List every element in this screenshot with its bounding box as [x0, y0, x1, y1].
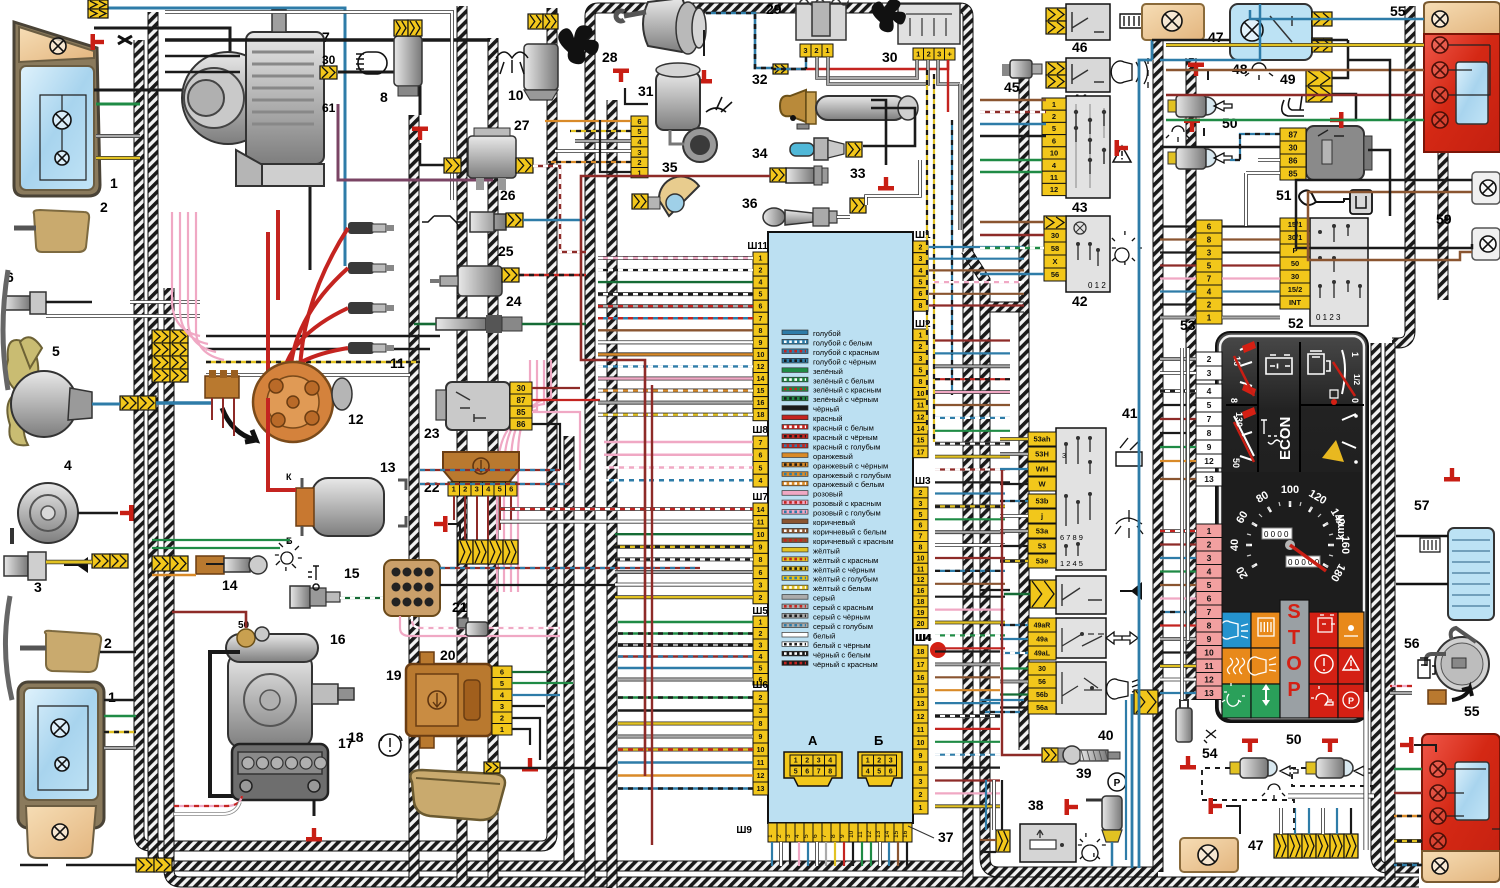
- svg-text:3: 3: [817, 758, 821, 765]
- sensor 34: [786, 168, 814, 183]
- tail lamp 55 bottom: [1422, 734, 1500, 882]
- wires 59: [1296, 180, 1472, 248]
- wire 34 red long: [581, 176, 770, 776]
- svg-text:3: 3: [803, 46, 807, 55]
- svg-text:11: 11: [757, 760, 765, 767]
- wire harness diagonal into room wall: [966, 250, 985, 300]
- svg-text:10: 10: [757, 532, 765, 539]
- icon rays 50: [1166, 126, 1189, 142]
- wires from marker connector: [206, 336, 440, 349]
- svg-text:0: 0: [1350, 398, 1360, 403]
- svg-text:жёлтый с голубым: жёлтый с голубым: [813, 575, 878, 584]
- icon defrost 57: [1420, 538, 1440, 552]
- wire harness x462: [457, 6, 468, 882]
- svg-text:белый: белый: [813, 631, 835, 640]
- wires 49: [1312, 40, 1348, 78]
- electric fan 5 motor: [11, 371, 77, 437]
- tail lamp 55 lamps: [1432, 11, 1448, 27]
- light switch part: [1056, 662, 1106, 714]
- svg-text:30: 30: [1289, 143, 1298, 152]
- white pipe lamps50: [1288, 793, 1374, 798]
- svg-text:34: 34: [752, 145, 768, 161]
- svg-text:8: 8: [830, 834, 837, 838]
- svg-text:10: 10: [508, 87, 524, 103]
- wire harness branch y305: [985, 302, 1024, 313]
- wires 21: [440, 567, 700, 569]
- svg-text:14: 14: [222, 577, 238, 593]
- headlamp 1 bottom-left frame: [18, 682, 104, 828]
- svg-text:2: 2: [919, 490, 923, 497]
- alternator output wire black: [165, 38, 490, 42]
- svg-text:j: j: [1040, 512, 1043, 521]
- chevron 29: [773, 64, 788, 74]
- svg-text:6: 6: [812, 834, 819, 838]
- pin column left of 52: [1196, 220, 1222, 233]
- svg-text:22: 22: [424, 479, 440, 495]
- svg-text:5: 5: [1207, 580, 1212, 590]
- alternator 7: [182, 10, 324, 186]
- oil sensor 26: [470, 212, 506, 232]
- tail 55 bottom window: [1455, 762, 1489, 820]
- wires into column 52 from left: [1160, 225, 1196, 227]
- column switch 41 wiper section: [1056, 428, 1106, 570]
- wires 29-30 gray: [817, 57, 917, 78]
- wires to 41 pins: [1000, 437, 1028, 441]
- svg-text:2: 2: [805, 758, 809, 765]
- sensor 40: [1042, 748, 1058, 762]
- wiper blue wire to 29: [706, 13, 773, 68]
- wires between harnesses right top: [980, 99, 1046, 102]
- svg-text:53a: 53a: [1036, 527, 1049, 536]
- svg-text:красный: красный: [813, 414, 842, 423]
- vacuum unit near 12: [332, 378, 352, 410]
- svg-text:16: 16: [757, 400, 765, 407]
- headlamp bottom lamps: [51, 719, 69, 737]
- ground top-left: [118, 36, 132, 44]
- cluster speedometer: [1222, 472, 1362, 612]
- ground 22: [434, 516, 448, 532]
- svg-text:5: 5: [759, 665, 763, 672]
- fuel sender 56: [1435, 637, 1489, 691]
- switch 36: [763, 208, 785, 226]
- svg-text:2: 2: [1207, 300, 1212, 309]
- sensor 14: [196, 556, 224, 574]
- white verticals left of cluster: [1180, 348, 1184, 700]
- wires to 55 top: [1166, 43, 1424, 47]
- svg-text:2: 2: [463, 485, 467, 494]
- svg-text:15: 15: [757, 388, 765, 395]
- svg-text:INT: INT: [1289, 298, 1302, 307]
- svg-text:7: 7: [759, 316, 763, 323]
- svg-text:6: 6: [805, 769, 809, 776]
- icon headlight 8: [356, 52, 387, 74]
- svg-text:47: 47: [1208, 29, 1224, 45]
- svg-text:5: 5: [919, 512, 923, 519]
- svg-text:51: 51: [1276, 187, 1292, 203]
- fan icon 30: [871, 0, 905, 32]
- svg-text:10: 10: [757, 352, 765, 359]
- icon foglamp 44: [1111, 58, 1148, 88]
- chevron connector right of 41: [1134, 690, 1158, 714]
- wires below Sh9: [771, 842, 773, 866]
- svg-text:9: 9: [759, 734, 763, 741]
- svg-text:49: 49: [1280, 71, 1296, 87]
- park brake switch 39: [1108, 773, 1126, 791]
- side marker 2 bottom: [45, 631, 101, 672]
- wires 19: [512, 671, 550, 673]
- svg-text:9: 9: [759, 545, 763, 552]
- svg-text:5: 5: [1207, 261, 1212, 270]
- svg-text:15: 15: [917, 438, 925, 445]
- svg-text:4: 4: [828, 758, 832, 765]
- svg-text:5: 5: [498, 485, 502, 494]
- washer pump 10: [524, 44, 558, 90]
- svg-text:53ah: 53ah: [1033, 435, 1051, 444]
- warning icons: [1220, 621, 1248, 639]
- svg-text:5: 5: [794, 769, 798, 776]
- wiper ground: [703, 30, 705, 56]
- svg-text:49aR: 49aR: [1034, 623, 1051, 630]
- svg-text:14: 14: [757, 376, 765, 383]
- svg-text:6: 6: [759, 453, 763, 460]
- svg-text:O: O: [1286, 653, 1302, 675]
- wires sensor6: [46, 301, 92, 304]
- svg-text:54: 54: [1202, 745, 1218, 761]
- svg-text:86: 86: [1289, 156, 1298, 165]
- wire harness left v1 to bottom run 1 to x552: [139, 8, 552, 846]
- svg-text:27: 27: [514, 117, 530, 133]
- svg-text:12: 12: [1050, 185, 1058, 194]
- svg-text:8: 8: [1229, 398, 1239, 403]
- fan connector: [120, 396, 138, 410]
- svg-text:А: А: [808, 733, 818, 748]
- headlamp 1 bottom turn section: [26, 806, 96, 858]
- svg-text:7: 7: [817, 769, 821, 776]
- wiper motor 28: [643, 0, 688, 52]
- wire 26 blue: [523, 219, 586, 222]
- svg-text:25: 25: [498, 243, 514, 259]
- svg-text:1: 1: [767, 834, 774, 838]
- block 21: [384, 560, 440, 616]
- svg-text:8: 8: [828, 769, 832, 776]
- svg-text:6: 6: [1052, 136, 1056, 145]
- block 37 wire legend: [782, 330, 808, 335]
- svg-text:5: 5: [919, 367, 923, 374]
- svg-text:15: 15: [917, 688, 925, 695]
- svg-text:20: 20: [917, 621, 925, 628]
- svg-text:3: 3: [785, 834, 792, 838]
- svg-text:55: 55: [1390, 3, 1406, 19]
- svg-text:30: 30: [1291, 272, 1299, 281]
- svg-text:35: 35: [662, 159, 678, 175]
- svg-text:1: 1: [919, 332, 923, 339]
- svg-text:6: 6: [1207, 593, 1212, 603]
- svg-text:17: 17: [917, 662, 925, 669]
- wire harness x1443 top: [1438, 6, 1449, 300]
- svg-text:33: 33: [850, 165, 866, 181]
- svg-text:52: 52: [1288, 315, 1304, 331]
- wires Sh4 right: [935, 650, 1000, 652]
- svg-text:Ш7: Ш7: [752, 492, 768, 503]
- wire 24 green: [414, 323, 586, 326]
- svg-text:6: 6: [1207, 222, 1212, 231]
- svg-text:12: 12: [1204, 456, 1214, 466]
- svg-text:39: 39: [1076, 765, 1092, 781]
- svg-text:Ш1: Ш1: [915, 230, 931, 241]
- wires to 55 bottom: [1394, 768, 1422, 771]
- red wires vertical from coil: [266, 232, 270, 396]
- heated window 57: [1448, 528, 1494, 620]
- odometers: [1262, 528, 1292, 539]
- svg-text:42: 42: [1072, 293, 1088, 309]
- icon washer 41: [1115, 510, 1143, 538]
- hazard switch 43: [1066, 96, 1110, 198]
- svg-text:11: 11: [1050, 173, 1058, 182]
- icon turn arrows: [1106, 632, 1138, 644]
- svg-text:56: 56: [1038, 679, 1046, 686]
- connector stack near marker: [152, 330, 170, 343]
- svg-text:10: 10: [757, 747, 765, 754]
- wire 36 white: [837, 215, 850, 219]
- svg-text:1: 1: [919, 805, 923, 812]
- svg-text:8: 8: [1207, 620, 1212, 630]
- sensor 45: [1002, 64, 1010, 76]
- license lamps 59: [1472, 172, 1500, 204]
- svg-text:11: 11: [1205, 661, 1214, 671]
- svg-text:10: 10: [848, 830, 855, 838]
- icon hazard 43: [1113, 146, 1131, 162]
- cluster fuel pump icon: [1308, 351, 1330, 374]
- svg-text:31: 31: [638, 83, 654, 99]
- svg-text:87: 87: [517, 396, 526, 405]
- svg-text:28: 28: [602, 49, 618, 65]
- svg-text:3: 3: [759, 708, 763, 715]
- svg-text:50: 50: [1286, 731, 1302, 747]
- svg-text:87: 87: [1289, 130, 1298, 139]
- svg-text:13: 13: [875, 830, 882, 838]
- wires lower right of 37: [980, 589, 1010, 591]
- icon light 42: [1112, 231, 1142, 265]
- wires from left harness to 23: [420, 470, 570, 484]
- dash connector block 37 body: [768, 232, 913, 823]
- icon 54: [1204, 730, 1216, 743]
- svg-text:53e: 53e: [1036, 557, 1049, 566]
- svg-text:2: 2: [104, 635, 112, 651]
- svg-text:4: 4: [1207, 287, 1212, 296]
- svg-text:2: 2: [919, 344, 923, 351]
- wires pins column mid: [545, 120, 631, 122]
- icon horn 41: [1116, 582, 1142, 600]
- svg-text:30: 30: [1051, 231, 1059, 240]
- svg-text:10: 10: [1050, 149, 1058, 158]
- wires 52 to column: [1222, 225, 1280, 227]
- svg-text:3: 3: [919, 356, 923, 363]
- svg-text:7: 7: [1207, 414, 1212, 424]
- tail 55 bottom lamps: [1430, 761, 1446, 777]
- relay 46: [1066, 4, 1110, 40]
- svg-text:1: 1: [1207, 526, 1212, 536]
- blue vertical pair bottom: [1131, 694, 1134, 868]
- instrument cluster 53 body: [1216, 332, 1368, 722]
- svg-text:5: 5: [52, 343, 60, 359]
- svg-text:4: 4: [794, 834, 801, 838]
- svg-text:2: 2: [637, 158, 641, 167]
- svg-text:2: 2: [919, 244, 923, 251]
- wires Sh7 left: [500, 507, 753, 511]
- ignition relay 27: [468, 136, 516, 178]
- svg-text:12: 12: [917, 714, 925, 721]
- svg-text:59: 59: [1436, 211, 1452, 227]
- speedo needle: [1285, 540, 1295, 550]
- svg-text:12: 12: [1204, 674, 1214, 684]
- ground mid bottom: [1209, 798, 1223, 814]
- wires Sh3 right: [935, 492, 1005, 494]
- icon seat 49: [1282, 96, 1304, 116]
- wire 47 blue down: [1139, 40, 1152, 868]
- distributor 12: [253, 362, 333, 442]
- svg-text:4: 4: [759, 280, 763, 287]
- svg-text:5: 5: [877, 769, 881, 776]
- icon wiper rect: [1116, 438, 1142, 466]
- svg-text:2: 2: [1207, 539, 1212, 549]
- bottom marker wires: [100, 651, 136, 654]
- wires 56: [1390, 685, 1412, 687]
- switch 24: [436, 318, 486, 330]
- svg-text:85: 85: [1289, 169, 1298, 178]
- svg-text:Ш2: Ш2: [915, 319, 931, 330]
- svg-text:1: 1: [1350, 352, 1360, 357]
- svg-text:12: 12: [917, 414, 925, 421]
- svg-text:12: 12: [917, 577, 925, 584]
- svg-text:0 0 0 0: 0 0 0 0: [1264, 530, 1289, 539]
- svg-text:47: 47: [1248, 837, 1264, 853]
- svg-text:6: 6: [889, 769, 893, 776]
- svg-text:5: 5: [759, 465, 763, 472]
- svg-text:2: 2: [100, 199, 108, 215]
- starter 16: [228, 652, 312, 748]
- distributor arrow: [222, 408, 256, 442]
- sensor 6: [4, 296, 30, 310]
- svg-text:зелёный с белым: зелёный с белым: [813, 376, 874, 385]
- svg-text:5: 5: [803, 834, 810, 838]
- svg-text:36: 36: [742, 195, 758, 211]
- wire harness x1191: [1186, 58, 1197, 700]
- light switch 42: [1066, 216, 1110, 292]
- wire starter black loop: [210, 652, 240, 796]
- svg-text:1: 1: [452, 485, 456, 494]
- pink wire bundle distributor: [497, 360, 530, 592]
- svg-text:6: 6: [919, 523, 923, 530]
- svg-text:14: 14: [917, 426, 925, 433]
- svg-text:16: 16: [330, 631, 346, 647]
- svg-text:11: 11: [917, 566, 925, 573]
- svg-text:9: 9: [839, 834, 846, 838]
- lamps 50 top: [1176, 95, 1206, 117]
- svg-text:8: 8: [919, 544, 923, 551]
- wire 30 to harness: [338, 72, 420, 115]
- svg-text:2: 2: [500, 713, 504, 722]
- horn 32: [780, 90, 806, 122]
- svg-text:10: 10: [917, 391, 925, 398]
- svg-text:43: 43: [1072, 199, 1088, 215]
- svg-text:Ш9: Ш9: [736, 825, 752, 836]
- svg-text:5: 5: [637, 127, 641, 136]
- svg-text:2: 2: [759, 695, 763, 702]
- svg-text:29: 29: [766, 1, 782, 17]
- wires bottom middle drops: [985, 780, 987, 830]
- svg-text:+: +: [948, 50, 953, 59]
- svg-text:3: 3: [759, 642, 763, 649]
- headlamp 1 lamps: [53, 111, 71, 129]
- brake switch 25: [458, 266, 502, 296]
- svg-text:8: 8: [759, 328, 763, 335]
- courtesy switch 54: [1176, 708, 1192, 742]
- alternator purple wire: [338, 104, 493, 180]
- svg-text:серый с красным: серый с красным: [813, 603, 873, 612]
- icon rays 48: [1245, 63, 1273, 80]
- svg-text:оранжевый с чёрным: оранжевый с чёрным: [813, 461, 888, 470]
- relay 51: [1306, 126, 1364, 180]
- svg-text:1: 1: [1207, 313, 1212, 322]
- svg-text:2: 2: [927, 50, 931, 59]
- svg-text:8: 8: [919, 379, 923, 386]
- red dot near Sh4: [930, 642, 946, 658]
- svg-text:2: 2: [814, 46, 818, 55]
- svg-text:13: 13: [757, 786, 765, 793]
- svg-text:3: 3: [1207, 553, 1212, 563]
- fan blue wire: [92, 403, 120, 406]
- svg-text:16: 16: [917, 588, 925, 595]
- wire harness x569: [564, 436, 575, 866]
- cluster top gauges: [1226, 342, 1364, 472]
- svg-text:Ш5: Ш5: [752, 606, 768, 617]
- wire harness x1376 lower pair: [1376, 343, 1419, 868]
- connector 23: [446, 382, 510, 430]
- svg-text:К: К: [286, 472, 292, 482]
- blue wire from 42 up: [1160, 4, 1260, 60]
- wire 39 blue: [1111, 842, 1114, 866]
- svg-text:красный с белым: красный с белым: [813, 424, 874, 433]
- svg-text:4: 4: [1207, 566, 1212, 576]
- icon washer 10: [496, 52, 528, 74]
- svg-text:58: 58: [1051, 244, 1059, 253]
- svg-text:40: 40: [1229, 539, 1241, 551]
- svg-text:0 1 2 3: 0 1 2 3: [1316, 313, 1341, 322]
- svg-text:2: 2: [1207, 354, 1212, 364]
- svg-text:10: 10: [1204, 647, 1214, 657]
- svg-text:5: 5: [500, 679, 504, 688]
- part 20: [458, 618, 468, 628]
- svg-text:голубой с красным: голубой с красным: [813, 348, 879, 357]
- svg-text:32: 32: [752, 71, 768, 87]
- svg-text:15/2: 15/2: [1288, 285, 1303, 294]
- svg-text:3: 3: [759, 582, 763, 589]
- svg-text:13: 13: [1204, 474, 1214, 484]
- svg-text:WH: WH: [1036, 465, 1049, 474]
- wire harness x1154: [1153, 10, 1164, 872]
- ignition coil 13: [312, 478, 384, 536]
- svg-text:красный с чёрным: красный с чёрным: [813, 433, 878, 442]
- svg-text:8: 8: [380, 89, 388, 105]
- svg-text:4: 4: [64, 457, 72, 473]
- svg-text:7: 7: [759, 440, 763, 447]
- svg-text:56a: 56a: [1036, 705, 1048, 712]
- icon 38: [1078, 833, 1106, 861]
- wires Sh11 left: [598, 256, 753, 260]
- svg-text:50: 50: [1222, 115, 1238, 131]
- svg-text:13: 13: [917, 701, 925, 708]
- battery 17: [232, 744, 328, 800]
